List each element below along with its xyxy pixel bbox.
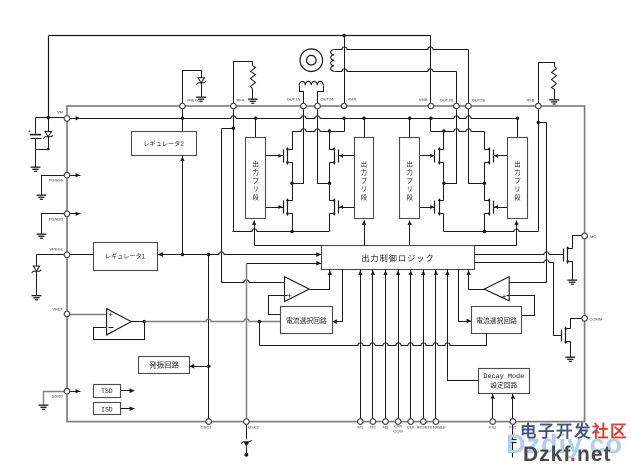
svg-text:VMB: VMB <box>419 97 428 102</box>
resistor RFA (current sense A) <box>251 66 256 89</box>
block current select A (電流選択回路) <box>281 307 333 334</box>
svg-text:VREG2: VREG2 <box>187 98 201 103</box>
ground (VM supply) <box>31 167 41 172</box>
svg-text:段: 段 <box>361 192 368 201</box>
svg-text:M2: M2 <box>370 425 376 430</box>
svg-text:電流選択回路: 電流選択回路 <box>476 316 517 325</box>
wire VM bus stub to predriver B-L <box>409 119 411 138</box>
block TSD (thermal shutdown) <box>94 385 121 398</box>
svg-text:+: + <box>502 292 507 301</box>
block regulator 1 (レギュレータ1) <box>94 243 158 271</box>
wire VREG1 pin to zener <box>37 254 68 256</box>
svg-text:プ: プ <box>407 177 414 185</box>
wire VREG2 pin to zener <box>183 71 202 104</box>
wire logic to predriver A-L <box>252 221 322 246</box>
wire ISD output arrow <box>121 406 135 411</box>
svg-text:电子开发: 电子开发 <box>520 421 592 441</box>
svg-text:.: . <box>570 443 576 464</box>
wire logic to predriver A-R <box>362 221 366 246</box>
wire VM bus stub to predriver B-R <box>517 119 519 138</box>
svg-text:電流選択回路: 電流選択回路 <box>286 316 327 325</box>
wire op-amp U1 feedback loop <box>94 322 145 340</box>
svg-text:OUT2A: OUT2A <box>321 97 335 102</box>
wire SGND pin stub <box>68 389 81 393</box>
pin COMM <box>582 316 602 322</box>
block ISD (overcurrent shutdown) <box>94 403 121 415</box>
wire MO pin to Q9 drain <box>573 236 585 249</box>
wire resistor RFB to ground <box>554 90 556 100</box>
svg-text:リ: リ <box>514 186 520 193</box>
svg-text:出: 出 <box>253 160 259 169</box>
svg-text:力: 力 <box>514 168 520 177</box>
svg-text:出力制御ロジック: 出力制御ロジック <box>361 253 435 263</box>
transistor Q5 (B high side left) <box>420 132 444 184</box>
wire regulator bus to logic left input <box>158 252 322 257</box>
transistor Q4 (A low side right) <box>330 184 355 232</box>
svg-text:PGNDA: PGNDA <box>49 178 64 183</box>
ground (SGND) <box>39 405 49 410</box>
svg-text:力: 力 <box>407 168 413 177</box>
pin OSC1 <box>201 419 213 430</box>
wire logic to current select B <box>459 270 472 324</box>
wire resistor RFA to ground <box>252 89 254 99</box>
svg-text:リ: リ <box>407 186 413 193</box>
pin VREG1 <box>49 247 69 258</box>
op-amp U2 (current comparator A) <box>285 277 310 302</box>
ground (VREG2) <box>196 97 206 102</box>
block Decay Mode 設定回路 <box>479 369 530 394</box>
wire PGNDA pin stub <box>68 173 81 177</box>
wire RFB pin to sense resistor <box>539 63 555 104</box>
svg-text:M1: M1 <box>358 425 364 430</box>
svg-text:OSC1: OSC1 <box>201 425 213 430</box>
svg-text:OUT1A: OUT1A <box>287 97 301 102</box>
wire internal VM bus <box>68 116 520 121</box>
wire VMA pin to top rail <box>342 34 345 104</box>
pin PGNDB <box>49 211 70 222</box>
wire RFA pin to sense resistor <box>234 62 253 104</box>
ground (PGNDA) <box>37 195 47 200</box>
block output predriver A-R (出力プリ段) <box>355 138 374 219</box>
transistor Q6 (B low side left) <box>420 184 444 232</box>
wire comparator B output to logic <box>466 270 484 290</box>
wire logic to MO gate <box>475 252 564 255</box>
wire logic to COMM gate <box>475 260 562 336</box>
wire sense A to comparator minus <box>222 129 285 283</box>
wire Q9 source to ground <box>572 262 574 280</box>
svg-text:プ: プ <box>514 177 521 185</box>
node VM junction at capacitor <box>47 116 68 119</box>
ground (MO output) <box>567 280 577 285</box>
block oscillator (発振回路) <box>139 357 190 374</box>
svg-text:M3: M3 <box>383 425 389 430</box>
zener diode D3 (VREG1 decoupling) <box>32 255 42 296</box>
wire VM bus stub to predriver A-L <box>255 119 257 138</box>
zener diode D1 (VM clamp) <box>43 118 53 150</box>
IC package boundary <box>67 106 585 422</box>
capacitor C2 on FS2 pin (external) <box>509 425 517 458</box>
svg-text:CCW: CCW <box>393 428 403 433</box>
op-amp U1 (VREF buffer) <box>107 309 132 335</box>
svg-text:出: 出 <box>361 160 367 169</box>
pin SGND <box>51 388 69 398</box>
wire RFA internal sense line <box>232 109 235 232</box>
transistor Q8 (B low side right) <box>485 184 508 232</box>
wire OSC1 pin line <box>208 255 210 420</box>
wire logic to current select A <box>332 270 342 325</box>
wire oscillator to OSC1 line <box>189 364 210 369</box>
op-amp U3 (current comparator B) <box>484 277 509 301</box>
wire VREF distribution (gray) <box>132 319 281 323</box>
block output predriver B-R (出力プリ段) <box>508 138 528 219</box>
wire comparator A output to logic <box>310 270 333 290</box>
wire input pin lines to logic (M1 M2 M3 CW/CCW CLK RESET ENABLE) <box>358 270 438 420</box>
wire RFB internal sense line <box>537 109 540 232</box>
wire drain rail B (VM to upper FETs) <box>431 119 485 133</box>
wire decay mode to logic <box>445 270 478 381</box>
svg-text:力: 力 <box>253 168 259 177</box>
svg-text:レギュレータ1: レギュレータ1 <box>105 253 146 261</box>
svg-text:プ: プ <box>253 177 260 185</box>
ground (RFB) <box>549 99 559 104</box>
pin VM <box>57 110 70 122</box>
block current select B (電流選択回路) <box>472 307 522 334</box>
wire drain rail A (VM to upper FETs) <box>293 119 345 133</box>
wire PGNDA to ground <box>42 176 68 195</box>
resistor RFB (current sense B) <box>552 67 557 90</box>
zener diode D2 (VREG2 decoupling) <box>196 71 206 97</box>
wire OUT1A pin to bridge node <box>290 109 303 185</box>
svg-text:MO: MO <box>590 234 596 239</box>
svg-text:社区: 社区 <box>591 421 628 441</box>
pin RFB <box>527 98 542 109</box>
svg-text:net: net <box>577 443 612 464</box>
svg-text:OUT2B: OUT2B <box>472 98 486 103</box>
wire VREF pin to op-amp <box>68 314 107 316</box>
pin PGNDA <box>49 172 70 182</box>
watermark 电子开发社区 <box>520 421 628 441</box>
svg-text:Dzkf: Dzkf <box>523 443 571 464</box>
wire OSC2 pin line <box>246 264 248 420</box>
svg-text:SGND: SGND <box>51 394 63 399</box>
wire source rail A (to RFA) <box>233 229 330 233</box>
motor winding A (horizontal coil) <box>299 81 323 103</box>
pin VREF <box>52 307 69 317</box>
wire source rail B (to RFB) <box>444 229 539 233</box>
pin M1 <box>358 419 364 430</box>
svg-text:OUT1B: OUT1B <box>440 98 454 103</box>
wire COMM pin to Q10 drain <box>571 319 585 329</box>
svg-text:CLK: CLK <box>407 425 415 430</box>
wire VREF line to current select B <box>260 322 487 346</box>
svg-text:RFA: RFA <box>237 98 245 103</box>
wire comparator B plus input <box>507 296 535 316</box>
svg-text:VMA: VMA <box>348 97 357 102</box>
svg-text:VREG1: VREG1 <box>49 247 63 252</box>
wire PGNDB to ground <box>42 214 68 234</box>
transistor Q3 (A high side right) <box>330 132 355 184</box>
svg-text:PGNDB: PGNDB <box>49 217 64 222</box>
svg-text:TSD: TSD <box>101 388 113 395</box>
pin ENABLE <box>430 419 446 430</box>
svg-text:段: 段 <box>407 192 414 201</box>
stepper motor rotor symbol <box>300 49 323 72</box>
pin M3 <box>383 419 389 430</box>
wire logic to predriver B-R <box>475 221 519 246</box>
pin RFA <box>231 98 245 109</box>
svg-text:リ: リ <box>361 186 367 193</box>
svg-text:レギュレータ2: レギュレータ2 <box>143 140 184 148</box>
wire OUT2B pin to bridge node <box>469 109 487 185</box>
wire VM supply rail (top) <box>49 36 431 118</box>
transistor Q9 (MO open drain) <box>564 247 573 264</box>
svg-text:リ: リ <box>253 186 259 193</box>
block output predriver B-L (出力プリ段) <box>400 138 420 219</box>
svg-text:出: 出 <box>407 160 413 169</box>
wire OUT2A pin to bridge node <box>318 109 332 185</box>
wire VMB pin to top rail <box>430 36 432 104</box>
transistor Q2 (A low side left) <box>266 184 293 232</box>
transistor Q10 (COMM open drain) <box>562 327 571 344</box>
pin MO <box>582 233 597 239</box>
wire capacitor/zener common to ground <box>36 148 50 167</box>
wire Q10 source to ground <box>570 342 572 357</box>
svg-text:段: 段 <box>253 192 260 201</box>
svg-text:Decay Mode: Decay Mode <box>483 373 524 381</box>
svg-text:設定回路: 設定回路 <box>490 380 517 389</box>
svg-text:ISD: ISD <box>101 406 113 413</box>
pin OSC2 <box>244 419 260 430</box>
pin CLK <box>407 419 415 430</box>
ground (PGNDB) <box>37 234 47 239</box>
motor winding B (vertical coil) <box>331 50 335 72</box>
wire winding B bottom terminal to OUT1B <box>335 69 457 104</box>
svg-text:VM: VM <box>57 110 63 115</box>
block output control logic (出力制御ロジック) <box>322 246 475 270</box>
svg-text:ENABLE: ENABLE <box>430 425 446 430</box>
wire comparator A plus input <box>269 296 288 315</box>
wire FS2 pin to decay mode <box>511 394 515 420</box>
wire regulator2 output to logic <box>180 156 184 257</box>
wire SGND to ground <box>44 392 68 405</box>
wire winding B top terminal to OUT2B <box>335 47 469 104</box>
pin M2 <box>370 419 376 430</box>
watermark Dzkf.net <box>523 443 612 464</box>
pin VMB <box>419 97 434 109</box>
ground (COMM output) <box>565 357 575 362</box>
transistor Q7 (B high side right) <box>485 132 508 184</box>
ground (VREG1) <box>32 295 42 300</box>
wire logic to predriver B-L <box>408 221 412 246</box>
wire FS1 pin to decay mode <box>491 394 495 420</box>
pin VREG2 <box>180 98 201 109</box>
svg-text:プ: プ <box>361 177 368 185</box>
block output predriver A-L (出力プリ段) <box>246 138 266 219</box>
svg-text:+: + <box>109 312 113 319</box>
block regulator 2 (レギュレータ2) <box>132 132 197 156</box>
svg-text:+: + <box>28 129 31 135</box>
svg-text:VREF: VREF <box>52 307 63 312</box>
pin OUT2A <box>315 97 334 109</box>
ground (RFA) <box>248 99 258 104</box>
wire PGNDB pin stub <box>68 212 81 216</box>
wire VM bus stub to predriver A-R <box>364 119 366 138</box>
pin OUT2B <box>466 98 486 109</box>
watermark light blue Dzdiy.com <box>506 429 623 459</box>
wire VREG2 pin to regulator 2 input <box>182 107 184 132</box>
node op-amp U1 output <box>143 320 146 323</box>
svg-text:COMM: COMM <box>590 317 603 322</box>
svg-text:力: 力 <box>361 168 367 177</box>
wire TSD output arrow <box>121 388 135 393</box>
transistor Q1 (A high side left) <box>266 132 293 184</box>
zener/cap on OSC2 pin (external) <box>241 425 251 457</box>
pin RESET <box>417 419 431 430</box>
svg-text:FS1: FS1 <box>489 425 497 430</box>
wire OSC2 to logic left input <box>247 261 322 266</box>
pin OUT1A <box>287 97 307 109</box>
svg-text:+: + <box>287 291 292 300</box>
pin FS1 <box>489 419 497 430</box>
svg-text:発振回路: 発振回路 <box>149 361 179 370</box>
wire OUT1B pin to bridge node <box>442 109 456 185</box>
svg-text:RFB: RFB <box>527 98 535 103</box>
wire VREG1 pin to regulator 1 <box>68 254 94 256</box>
pin VMA <box>341 97 356 109</box>
svg-text:段: 段 <box>514 192 521 201</box>
pin FS2 <box>509 419 517 430</box>
svg-text:出: 出 <box>514 160 520 169</box>
pin CW/CCW <box>393 419 403 433</box>
capacitor C1 (VM bypass electrolytic) <box>28 118 49 150</box>
wire sense B to comparator minus <box>510 123 547 283</box>
svg-text:OSC2: OSC2 <box>248 425 260 430</box>
pin OUT1B <box>440 98 460 109</box>
svg-text:RESET: RESET <box>417 425 431 430</box>
